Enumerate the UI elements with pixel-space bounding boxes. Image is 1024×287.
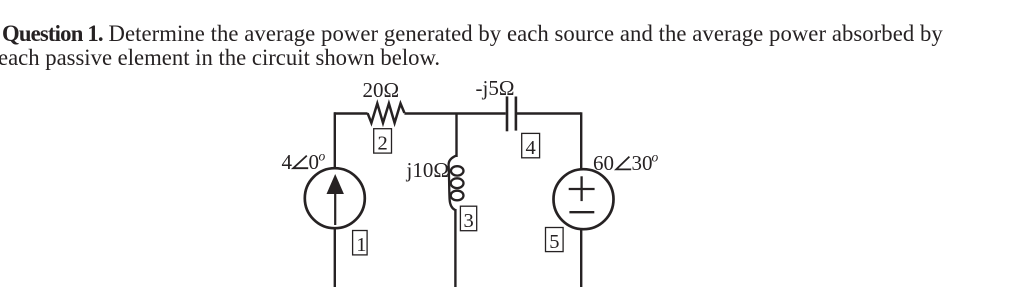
wire: right vertical (node B down to voltage source) (580, 112, 582, 169)
angle symbol of 4∠0° (293, 156, 308, 169)
svg-text:o: o (652, 150, 659, 165)
voltage source minus sign (569, 211, 594, 213)
voltage source 60∠30° (element 5) circle (554, 169, 614, 229)
svg-text:o: o (319, 149, 326, 164)
label 60∠30° (593, 150, 659, 176)
capacitor -j5Ω (element 4) plates (507, 96, 516, 131)
wire: right bottom vertical (voltage source to bottom edge) (580, 229, 582, 287)
wire: top-middle horizontal (resistor to capacitor left plate) (404, 112, 505, 114)
svg-text:4: 4 (282, 150, 293, 174)
current source 4∠0° (element 1) circle (305, 168, 365, 228)
angle symbol of 60∠30° (616, 157, 631, 170)
current source arrow (327, 174, 344, 225)
svg-text:20Ω: 20Ω (363, 78, 400, 102)
svg-text:2: 2 (378, 133, 388, 155)
question text line 2 (0, 46, 1002, 70)
box label 4 (522, 133, 540, 159)
wire: middle bottom vertical (inductor to bottom edge) (454, 209, 456, 287)
wire: left bottom vertical (current source to bottom edge) (334, 228, 336, 287)
box label 3 (460, 206, 476, 232)
svg-text:30: 30 (632, 151, 653, 175)
svg-text:-j5Ω: -j5Ω (476, 76, 515, 100)
inductor j10Ω (element 3) spine curve (449, 156, 457, 211)
svg-text:3: 3 (464, 210, 474, 232)
box label 2 (374, 129, 392, 155)
svg-text:j10Ω: j10Ω (406, 158, 449, 182)
svg-text:0: 0 (309, 150, 320, 174)
svg-text:1: 1 (356, 234, 366, 256)
box label 5 (546, 228, 564, 254)
label 4∠0° (282, 149, 326, 174)
question text line 1 (2, 22, 1002, 70)
box label 1 (353, 231, 368, 257)
wire: top-right horizontal (capacitor to node B) (517, 112, 581, 114)
svg-text:5: 5 (549, 231, 559, 253)
inductor j10Ω loops (451, 166, 464, 200)
voltage source plus sign (569, 176, 595, 201)
wire: left vertical (node A down to current source) (334, 112, 336, 168)
svg-text:4: 4 (526, 137, 536, 159)
wire: middle vertical (node between resistor and capacitor down to inductor) (455, 114, 457, 158)
resistor 20Ω (element 2) zigzag (368, 104, 405, 123)
wire: top-left horizontal (node A to resistor) (334, 112, 368, 114)
svg-text:60: 60 (593, 151, 614, 175)
